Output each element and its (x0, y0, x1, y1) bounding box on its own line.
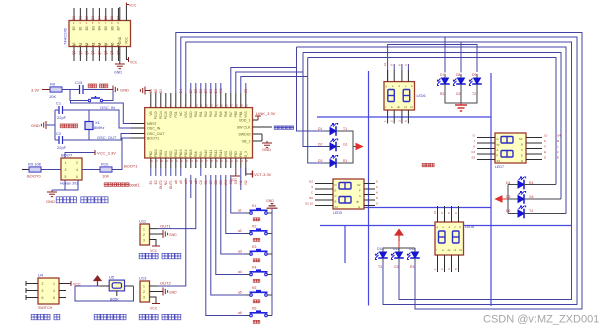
display LED5 inside pin labels (335, 183, 362, 209)
connector U13 pins (150, 286, 164, 304)
svg-text:c2: c2 (410, 105, 413, 109)
east LED D4 (506, 177, 533, 190)
button K6 (238, 307, 272, 324)
svg-text:OSC_OUT: OSC_OUT (147, 132, 165, 136)
svg-text:Q0: Q0 (72, 50, 76, 54)
svg-text:boot1: boot1 (129, 183, 140, 188)
label 电源输入端 (94, 314, 100, 320)
svg-text:OSC_OUT: OSC_OUT (97, 135, 117, 140)
net OSC_IN wire to mcu (89, 105, 131, 128)
svg-text:Q2: Q2 (85, 50, 89, 54)
svg-text:Header 3X2: Header 3X2 (60, 182, 78, 186)
svg-text:D5: D5 (194, 89, 198, 93)
svg-text:S2: S2 (357, 183, 361, 187)
svg-text:1: 1 (53, 282, 55, 286)
wire boot header to ground (52, 180, 78, 190)
svg-text:PB14: PB14 (184, 149, 188, 157)
svg-text:OSC_IN: OSC_IN (100, 105, 115, 110)
svg-text:10: 10 (544, 134, 548, 138)
svg-text:2: 2 (76, 161, 78, 165)
power VCC bottom right of U2 (129, 57, 138, 65)
svg-text:VB_1: VB_1 (242, 140, 251, 144)
svg-text:D9: D9 (472, 73, 476, 77)
display LED8 inside pin labels (437, 225, 463, 252)
capacitor C1 22pF (56, 101, 67, 121)
wire MCU pin to button K2 net a2 (226, 175, 245, 234)
svg-text:PB15: PB15 (189, 149, 193, 157)
svg-text:OSC_IN: OSC_IN (147, 127, 161, 131)
display LED6 bottom pin numbers (383, 120, 408, 122)
mcu U1 extra bottom net labels (199, 180, 248, 185)
mcu U1 bottom pin names rotated (149, 149, 248, 157)
svg-text:PA2: PA2 (204, 111, 208, 117)
svg-text:VSS: VSS (164, 151, 168, 157)
svg-text:U11: U11 (139, 219, 147, 224)
svg-text:B1: B1 (79, 26, 83, 30)
display LED6 top pin numbers (383, 62, 408, 66)
mcu U1 right pin names (237, 119, 251, 144)
net OSC_OUT wire to mcu (89, 134, 131, 141)
button K1 (238, 204, 272, 221)
svg-text:BOOT1: BOOT1 (124, 164, 138, 169)
svg-text:a4: a4 (184, 180, 188, 184)
svg-text:N2: N2 (244, 180, 248, 184)
svg-text:R3: R3 (410, 265, 414, 269)
svg-text:T4: T4 (529, 209, 533, 213)
svg-text:5: 5 (65, 175, 67, 179)
svg-text:A: A (359, 194, 361, 198)
svg-text:E: E (544, 150, 546, 154)
svg-text:GND: GND (114, 71, 122, 75)
svg-text:K1: K1 (252, 204, 256, 208)
bright wire vertical x368.5 (368, 71, 370, 306)
svg-text:dp: dp (356, 200, 360, 204)
east LED D5 (506, 191, 534, 204)
svg-text:a3: a3 (238, 250, 242, 254)
svg-text:B: B (521, 143, 523, 147)
svg-text:PA1: PA1 (199, 111, 203, 117)
svg-text:1: 1 (143, 285, 145, 289)
svg-text:a2: a2 (194, 180, 198, 184)
svg-text:BOOT0: BOOT0 (27, 174, 41, 179)
svg-text:E2: E2 (154, 180, 158, 184)
svg-text:PA4: PA4 (214, 111, 218, 117)
svg-text:B5: B5 (149, 89, 153, 93)
svg-text:B2: B2 (309, 196, 313, 200)
mcu U1 bottom net labels (149, 159, 248, 189)
svg-text:NRST: NRST (147, 122, 158, 126)
mcu U1 STM32F103 body (145, 108, 253, 158)
svg-text:F: F (376, 185, 378, 189)
wire LED6 pin4 riser (407, 64, 409, 70)
svg-text:VCC: VCC (230, 178, 238, 182)
wire segment y44.5 LED6 to D9 (388, 45, 477, 82)
power VCC below U13 (150, 304, 160, 311)
wire MCU pin to button K5 net a5 (211, 175, 245, 295)
svg-text:SWDIO: SWDIO (238, 133, 250, 137)
svg-text:PC15: PC15 (164, 111, 168, 119)
display LED6 dual 7-seg body (384, 82, 426, 110)
svg-text:VSS: VSS (224, 151, 228, 157)
display LED7 rotated 7-seg body (495, 133, 526, 169)
capacitor C2 22pF (56, 131, 67, 150)
svg-text:GND: GND (266, 199, 274, 203)
svg-text:GND: GND (31, 123, 40, 128)
svg-text:1: 1 (143, 228, 145, 232)
reset circuit: net 3.3V (31, 88, 50, 93)
svg-text:A: A (497, 148, 499, 152)
svg-text:Q5: Q5 (104, 50, 108, 54)
svg-text:LED8: LED8 (465, 225, 474, 229)
ground right of U11 (163, 230, 177, 238)
label 东西光电开关 (139, 253, 145, 258)
south LED common rail and power arrow (383, 230, 415, 253)
wire MCU pin to button K1 net a1 (231, 175, 245, 213)
svg-text:PA10: PA10 (204, 150, 208, 158)
svg-text:6: 6 (42, 296, 44, 300)
wire MCU pin to button K3 net a3 (221, 175, 245, 254)
crystal circuit left rail (54, 110, 56, 140)
svg-text:C: C (521, 148, 523, 152)
svg-text:C7: C7 (209, 180, 213, 184)
svg-text:D3: D3 (318, 159, 322, 163)
wire net stub x241 (240, 176, 242, 190)
svg-text:3: 3 (42, 289, 44, 293)
svg-text:B4: B4 (98, 26, 102, 30)
svg-text:VCC: VCC (125, 36, 129, 44)
svg-text:PB0: PB0 (234, 111, 238, 117)
regulator U5 body (109, 275, 125, 302)
resistor R10 10K (82, 162, 112, 179)
svg-text:PC14: PC14 (159, 111, 163, 119)
svg-text:OUT2: OUT2 (160, 281, 171, 286)
buffer U2 pins and labels (72, 8, 129, 61)
ground below U2 (114, 64, 125, 75)
svg-text:5: 5 (53, 296, 55, 300)
svg-text:BOOT1: BOOT1 (147, 137, 159, 141)
wire bus loop 1 MCU pin PA? to LED D12 (176, 33, 582, 310)
svg-text:VSS: VSS (184, 111, 188, 117)
svg-text:B0: B0 (72, 26, 76, 30)
wire OUT1 from U11 to MCU (157, 178, 196, 229)
svg-text:G4: G4 (529, 195, 534, 199)
reset button S1 (70, 90, 113, 102)
svg-text:D1: D1 (78, 16, 82, 20)
svg-text:GND: GND (169, 291, 177, 295)
wire drop to west LED D3 (308, 58, 328, 164)
svg-text:NC: NC (164, 180, 168, 185)
svg-text:LED6: LED6 (417, 94, 426, 98)
wire bus loop 6 to east LED row R4 (308, 58, 556, 185)
svg-text:K5: K5 (252, 286, 256, 290)
svg-text:D4: D4 (98, 16, 102, 20)
svg-text:R2: R2 (440, 92, 444, 96)
svg-text:a2: a2 (238, 229, 242, 233)
wire LED6 pin2 riser (393, 64, 395, 70)
svg-text:4: 4 (76, 168, 78, 172)
svg-text:CSDN @v:MZ_ZXD001: CSDN @v:MZ_ZXD001 (483, 314, 599, 326)
svg-text:B: B (335, 200, 337, 204)
svg-text:X: X (544, 145, 546, 149)
svg-text:B6: B6 (110, 26, 114, 30)
svg-text:10K: 10K (49, 94, 56, 99)
svg-text:PA0: PA0 (194, 111, 198, 117)
wire drop to west LED D2 (303, 53, 328, 147)
svg-text:G1: G1 (343, 143, 348, 147)
svg-text:VCC: VCC (150, 307, 158, 311)
wire boot header to VCC_3.3V (65, 153, 95, 159)
svg-text:D1: D1 (318, 127, 322, 131)
button K4 (238, 266, 272, 283)
connector U13 north-south photo switch (139, 276, 150, 303)
display LED5 right pin labels (376, 180, 379, 206)
west LED D2 (318, 139, 348, 152)
wire cap to gnd (83, 89, 108, 91)
svg-text:PB4: PB4 (239, 151, 243, 157)
svg-text:VDD: VDD (189, 111, 193, 118)
svg-text:dp: dp (448, 248, 452, 252)
ground left of crystal (31, 121, 55, 129)
svg-text:Q3: Q3 (91, 50, 95, 54)
svg-text:W1: W1 (219, 88, 223, 93)
svg-text:PB3: PB3 (234, 151, 238, 157)
button K3 (238, 245, 272, 262)
wire R0 to node (62, 89, 79, 91)
svg-text:a5: a5 (179, 180, 183, 184)
display LED6 bottom pins (388, 110, 409, 124)
svg-text:2: 2 (143, 290, 145, 294)
svg-text:GND: GND (262, 147, 271, 152)
display LED8 bottom pins (438, 255, 459, 272)
mcu U1 left pins (131, 124, 145, 139)
svg-text:GND: GND (120, 88, 129, 93)
svg-text:dp: dp (397, 105, 401, 109)
svg-text:G3: G3 (394, 265, 399, 269)
svg-text:PB11: PB11 (159, 150, 163, 158)
svg-text:K2: K2 (252, 225, 256, 229)
svg-text:T3: T3 (378, 265, 382, 269)
svg-text:PB10: PB10 (154, 149, 158, 157)
svg-text:E: E (521, 154, 523, 158)
svg-text:dp: dp (497, 143, 501, 147)
svg-text:G: G (358, 205, 360, 209)
svg-text:VDD: VDD (229, 150, 233, 157)
svg-text:PC13: PC13 (154, 111, 158, 119)
button K5 (238, 286, 272, 303)
svg-text:E1: E1 (149, 180, 153, 184)
svg-text:D: D (335, 183, 337, 187)
svg-text:R1: R1 (343, 159, 347, 163)
svg-text:PA5: PA5 (219, 111, 223, 117)
svg-text:C5: C5 (244, 89, 248, 93)
svg-text:PA8: PA8 (194, 151, 198, 157)
display LED7 right pins (526, 138, 542, 160)
wire MCU pin to button K6 net a6 (206, 175, 245, 316)
bright wire vertical x345 (344, 226, 346, 264)
svg-text:B6: B6 (154, 89, 158, 93)
svg-text:A: A (376, 191, 378, 195)
mcu U1 extra top net labels (149, 89, 248, 93)
svg-text:PD1: PD1 (174, 111, 178, 117)
svg-text:C: C (335, 194, 337, 198)
mcu U1 top net labels (150, 88, 248, 108)
svg-text:G: G (497, 137, 499, 141)
wire NRST to mcu (71, 101, 132, 124)
svg-text:C6: C6 (199, 180, 203, 184)
display LED5 right pins (364, 184, 375, 206)
label 晶振电路 (60, 124, 64, 128)
bright wire horizontal y117 (317, 116, 491, 118)
display LED5 rotated 7-seg body (333, 179, 364, 215)
boot header JP1 body (60, 153, 82, 186)
svg-text:PA11: PA11 (209, 150, 213, 158)
svg-text:K4: K4 (252, 266, 256, 270)
svg-text:G2: G2 (456, 92, 461, 96)
wire bus loop 5 to east LED row G4 (303, 53, 561, 200)
svg-text:3: 3 (143, 239, 145, 243)
svg-text:OUT1: OUT1 (160, 224, 171, 229)
svg-text:D6: D6 (199, 89, 203, 93)
power switch U4 pins (26, 281, 71, 300)
svg-text:10: 10 (383, 62, 387, 66)
display LED7 inside pin labels (497, 137, 524, 163)
ground below boot header (46, 190, 57, 204)
svg-text:A: A (473, 145, 475, 149)
svg-text:K3: K3 (252, 245, 256, 249)
svg-text:8MHz: 8MHz (94, 125, 104, 130)
mcu U1 right pins (253, 120, 273, 141)
svg-text:E4: E4 (214, 89, 218, 93)
svg-text:D0: D0 (72, 16, 76, 20)
display LED8 top pins (438, 206, 459, 222)
connector U11 east-west photo switch (139, 219, 150, 246)
svg-text:D7: D7 (440, 73, 444, 77)
svg-text:6: 6 (76, 175, 78, 179)
east LED common rail and power (496, 185, 567, 214)
svg-text:GND: GND (46, 199, 55, 204)
svg-text:PB2: PB2 (149, 151, 153, 157)
svg-text:R9 10K: R9 10K (28, 162, 42, 167)
north LED D8 (453, 73, 466, 96)
svg-text:E: E (335, 189, 337, 193)
svg-text:T1: T1 (343, 127, 347, 131)
wire drop to west LED D1 (297, 47, 329, 131)
svg-text:LED7: LED7 (495, 165, 504, 169)
svg-text:U5: U5 (109, 275, 115, 280)
mcu U1 bottom pins (151, 158, 246, 176)
node LINK_3.3V at mcu right (255, 111, 276, 120)
svg-text:10: 10 (433, 210, 437, 214)
svg-text:G_3: G_3 (244, 151, 248, 157)
svg-text:S3: S3 (471, 156, 475, 160)
svg-text:B2: B2 (85, 26, 89, 30)
wire drop to LED D7 (444, 37, 446, 73)
svg-text:B: B (557, 139, 559, 143)
svg-text:c1: c1 (404, 105, 407, 109)
buffer U2 gnd vcc columns (120, 6, 129, 64)
svg-text:VCC: VCC (130, 61, 138, 65)
label 南北光电开关 (139, 314, 145, 320)
svg-text:C2: C2 (56, 131, 62, 136)
svg-text:VDD: VDD (169, 150, 173, 157)
svg-text:PA6: PA6 (224, 111, 228, 117)
ground left of mcu top pins (140, 87, 150, 95)
wire LED6 pin3 riser (401, 64, 403, 70)
svg-text:22pF: 22pF (57, 115, 67, 120)
node VCC_3.3V (95, 150, 116, 156)
svg-text:PB1: PB1 (239, 111, 243, 117)
svg-text:D4: D4 (179, 89, 183, 93)
crystal X1 8MHz (55, 110, 104, 140)
power VCC top right of U2 (126, 3, 136, 8)
svg-text:Q4: Q4 (98, 50, 102, 54)
node 程序下载口 label (274, 126, 277, 129)
label 电源开关 (31, 314, 37, 320)
svg-text:10K: 10K (102, 174, 109, 179)
power VCC right of U4 (71, 281, 81, 287)
display LED5 left pins (315, 184, 333, 206)
svg-text:B7: B7 (189, 89, 193, 93)
svg-text:S4: S4 (557, 134, 561, 138)
svg-text:Q6: Q6 (110, 50, 114, 54)
node VCC at mcu bottom pin (230, 168, 240, 182)
east LED D6 (506, 206, 533, 219)
wire drop to LED D8 (460, 42, 462, 73)
display LED7 right pin labels (544, 134, 561, 160)
south LED D12 (407, 247, 420, 269)
display LED8 bottom pin labels (433, 268, 458, 270)
ground right of U13 (163, 288, 177, 296)
bright wire long horizontal y225.5 (320, 225, 572, 227)
bright wire vertical x491 (490, 73, 492, 306)
svg-text:D6: D6 (110, 16, 114, 20)
svg-text:LED5: LED5 (333, 211, 342, 215)
label 复位电路 (88, 84, 92, 88)
svg-text:C15: C15 (75, 80, 83, 85)
wire staircase 1 from mcu (231, 68, 297, 94)
svg-text:E: E (557, 156, 559, 160)
svg-text:a1: a1 (238, 209, 242, 213)
svg-text:LINK_3.3V: LINK_3.3V (256, 111, 276, 116)
svg-text:Q1: Q1 (78, 50, 82, 54)
regulator U5 pins and loop wires (75, 286, 134, 301)
south LED D10 (375, 247, 388, 269)
svg-text:K6: K6 (252, 307, 256, 311)
svg-text:OUT2: OUT2 (159, 180, 163, 189)
svg-text:PA13: PA13 (219, 150, 223, 158)
svg-text:N1: N1 (239, 180, 243, 184)
svg-text:W4: W4 (224, 180, 228, 185)
svg-text:D8: D8 (214, 180, 218, 184)
svg-text:SW CLK: SW CLK (237, 126, 251, 130)
svg-text:VCC: VCC (150, 249, 158, 253)
svg-text:D2: D2 (309, 180, 313, 184)
svg-text:NC: NC (179, 111, 183, 116)
svg-text:1: 1 (65, 161, 67, 165)
south LED D11 (391, 247, 404, 269)
svg-text:B7: B7 (117, 26, 121, 30)
display LED8 top pin labels (433, 210, 458, 214)
label 数码管 (422, 163, 426, 167)
wire net stub x192 (190, 175, 192, 198)
wire staircase 2 from mcu (236, 72, 303, 93)
svg-text:3.3V: 3.3V (31, 88, 40, 93)
power switch U4 body (38, 273, 59, 311)
wire bus loop 2 to LED D10 (181, 37, 577, 305)
svg-text:U4: U4 (38, 273, 44, 278)
svg-text:D8: D8 (456, 73, 460, 77)
svg-text:D5: D5 (104, 16, 108, 20)
